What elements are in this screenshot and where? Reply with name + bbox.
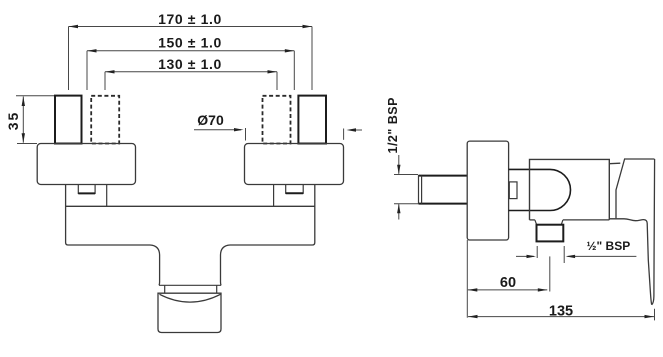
left handle alt position (dashed) — [91, 96, 119, 144]
outlet cap — [158, 293, 221, 332]
right escutcheon block — [245, 144, 344, 185]
svg-text:½" BSP: ½" BSP — [587, 239, 631, 253]
svg-text:35: 35 — [5, 111, 21, 131]
dimension 135 — [468, 304, 655, 321]
right handle alt position (dashed) — [263, 96, 291, 144]
outlet concave arc — [160, 294, 221, 302]
left escutcheon block — [37, 144, 135, 185]
mixer body outline with centre spout boss — [66, 185, 315, 286]
left neck slab — [106, 185, 108, 207]
outlet stub chamfer — [535, 220, 537, 225]
dimension 150 ± 1.0 — [87, 35, 294, 91]
right neck slab — [273, 185, 275, 207]
svg-text:Ø70: Ø70 — [197, 112, 224, 128]
left handle (solid) — [55, 96, 82, 144]
collar band — [164, 285, 166, 293]
side view: inlet diameter dimension — [394, 155, 418, 220]
mixer body bar top edge — [66, 205, 315, 207]
dimension 130 ± 1.0 — [105, 56, 277, 90]
right notch — [286, 185, 304, 194]
left notch — [78, 185, 95, 194]
dimension 170 ± 1.0 — [69, 11, 313, 90]
cartridge screw — [509, 182, 517, 199]
svg-text:170 ± 1.0: 170 ± 1.0 — [158, 11, 222, 27]
connector and cartridge dome — [509, 169, 571, 210]
svg-text:150 ± 1.0: 150 ± 1.0 — [158, 35, 222, 51]
boss bottom edge — [159, 284, 221, 286]
label Ø70 with leader — [194, 112, 246, 141]
svg-text:135: 135 — [549, 304, 573, 320]
leader arrow right (Ø70 opposite side) — [344, 128, 362, 140]
right handle (solid) — [298, 96, 326, 144]
dimension 35 (handle height) — [5, 96, 54, 144]
dimension ½" BSP (outlet) — [516, 239, 636, 292]
svg-text:60: 60 — [500, 275, 516, 291]
svg-text:1/2" BSP: 1/2" BSP — [386, 97, 400, 153]
wall plate — [467, 141, 508, 240]
svg-text:130 ± 1.0: 130 ± 1.0 — [158, 56, 222, 72]
lever handle — [609, 159, 654, 305]
valve body — [530, 159, 610, 220]
dimension 60 — [467, 240, 547, 318]
inlet pipe — [419, 175, 468, 204]
outlet stub — [537, 225, 564, 242]
